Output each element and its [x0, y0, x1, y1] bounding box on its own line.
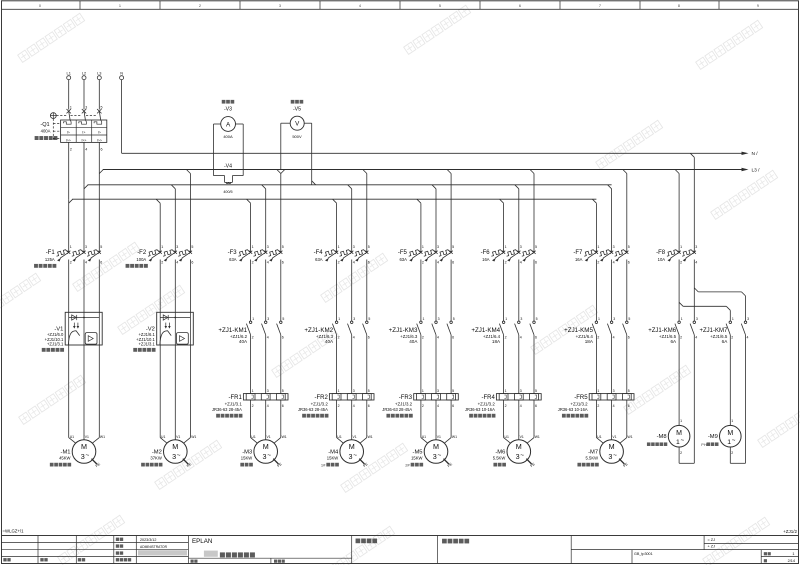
svg-text:18A: 18A — [492, 339, 501, 344]
svg-text:63A: 63A — [399, 257, 407, 262]
svg-text:~: ~ — [681, 438, 685, 444]
svg-text:4: 4 — [437, 261, 439, 265]
svg-text:A: A — [226, 121, 231, 128]
circuit breaker Q1 (400A molded case) — [61, 106, 107, 200]
svg-text:~: ~ — [613, 452, 617, 459]
svg-text:-FR4: -FR4 — [481, 395, 495, 401]
svg-text:2: 2 — [505, 336, 507, 340]
svg-text:3: 3 — [433, 452, 437, 461]
svg-text:+ZJ1/6.4: +ZJ1/6.4 — [483, 334, 501, 339]
label motor name 二级高压泵 — [141, 463, 162, 467]
svg-text:L1: L1 — [67, 70, 71, 75]
svg-text:+ ZJ: + ZJ — [708, 545, 716, 549]
wire M9 feed from contactor — [729, 335, 731, 426]
wire V2 to motor — [159, 345, 161, 438]
svg-text:-F1: -F1 — [46, 250, 56, 256]
svg-text:W1: W1 — [368, 435, 373, 439]
svg-text:6: 6 — [519, 4, 521, 8]
motor M2 (37KW 二级高压泵) — [150, 435, 196, 463]
svg-text:5: 5 — [535, 389, 537, 393]
svg-text:3: 3 — [176, 245, 178, 249]
svg-text:2: 2 — [597, 261, 599, 265]
svg-text:3: 3 — [353, 245, 355, 249]
svg-text:6: 6 — [282, 261, 284, 265]
contactor KM1 (+ZJ1-KM1) — [218, 317, 284, 344]
svg-text:5: 5 — [628, 317, 630, 321]
svg-text:PH: PH — [701, 443, 707, 447]
svg-text:15KW: 15KW — [327, 456, 338, 461]
svg-text:+ZJ1/3.1: +ZJ1/3.1 — [138, 342, 155, 347]
Q1 manual operating mechanism — [50, 113, 56, 119]
svg-text:W1: W1 — [282, 435, 287, 439]
svg-text:4: 4 — [85, 261, 87, 265]
motor M5 (15KW 2#反洗泵) — [411, 435, 457, 463]
svg-text:-F4: -F4 — [314, 250, 324, 256]
bus L2 — [88, 184, 612, 186]
svg-text:6: 6 — [368, 336, 370, 340]
svg-text:6: 6 — [368, 261, 370, 265]
svg-text:1: 1 — [505, 389, 507, 393]
svg-text:~: ~ — [177, 452, 181, 459]
svg-text:2: 2 — [70, 261, 72, 265]
wire KM3 to FR3 — [420, 335, 422, 394]
wire KM1 to FR1 — [250, 335, 252, 394]
contactor KM7 (+ZJ1-KM7) — [699, 317, 749, 344]
svg-text:M: M — [172, 442, 178, 451]
svg-text:1: 1 — [598, 317, 600, 321]
svg-text:N: N — [120, 70, 123, 75]
svg-text:5: 5 — [452, 389, 454, 393]
svg-text:6: 6 — [452, 261, 454, 265]
svg-text:10A: 10A — [658, 257, 666, 262]
svg-text:+ZJ1/3.2: +ZJ1/3.2 — [311, 401, 329, 406]
svg-text:2: 2 — [505, 404, 507, 408]
svg-text:+ZJ1/3.1: +ZJ1/3.1 — [225, 401, 243, 406]
svg-text:-V3: -V3 — [224, 106, 232, 112]
svg-text:3: 3 — [516, 452, 520, 461]
svg-text:+ZJ1/3.2: +ZJ1/3.2 — [570, 401, 588, 406]
motor M6 (5.5KW 提升泵) — [493, 435, 540, 463]
wire F8 to KM6 pole2 — [693, 260, 695, 322]
svg-text:2: 2 — [338, 261, 340, 265]
svg-text:2: 2 — [731, 336, 733, 340]
svg-text:2: 2 — [597, 404, 599, 408]
svg-text:40A: 40A — [239, 339, 248, 344]
svg-text:1: 1 — [252, 245, 254, 249]
svg-text:1: 1 — [422, 389, 424, 393]
thermal overload relay FR5 (JR36-63 10-16A) — [558, 389, 634, 412]
svg-text:+ZJ1-KM4: +ZJ1-KM4 — [471, 327, 500, 334]
svg-text:-M7: -M7 — [588, 449, 598, 455]
svg-text:2: 2 — [680, 336, 682, 340]
label motor name 提升泵 — [493, 463, 506, 467]
circuit breaker F6 (16A) — [481, 245, 537, 265]
svg-text:5: 5 — [368, 245, 370, 249]
svg-text:+ZJ1/6.3: +ZJ1/6.3 — [400, 334, 418, 339]
svg-text:1: 1 — [732, 317, 734, 321]
label 热过载继电器 FR5 — [562, 414, 588, 418]
svg-text:3: 3 — [85, 106, 87, 110]
svg-text:3: 3 — [353, 317, 355, 321]
ammeter V3 — [222, 100, 235, 104]
label motor name 原水泵 — [240, 463, 252, 467]
wire taps feeding branch F3 — [247, 199, 251, 203]
svg-text:-F3: -F3 — [228, 250, 238, 256]
svg-text:I>>: I>> — [97, 138, 102, 142]
svg-text:2: 2 — [422, 404, 424, 408]
svg-text:~: ~ — [438, 452, 442, 459]
svg-text:1: 1 — [119, 4, 121, 8]
svg-text:500V: 500V — [292, 134, 302, 139]
svg-text:M: M — [263, 442, 269, 451]
circuit breaker F3 (63A) — [228, 245, 284, 265]
svg-text:45KW: 45KW — [59, 456, 70, 461]
wire V5 to L2 bus — [304, 122, 312, 124]
svg-text:6: 6 — [452, 404, 454, 408]
svg-text:15KW: 15KW — [241, 456, 252, 461]
wire V5 to L3 bus — [281, 122, 290, 124]
svg-text:400/5: 400/5 — [223, 190, 232, 194]
contactor KM5 (+ZJ1-KM5) — [564, 317, 630, 344]
svg-text:7: 7 — [599, 4, 601, 8]
svg-text:8: 8 — [678, 4, 680, 8]
svg-text:+ZJ1/6.3: +ZJ1/6.3 — [316, 334, 334, 339]
svg-text:1: 1 — [597, 245, 599, 249]
svg-text:+ZJ1/6.4: +ZJ1/6.4 — [576, 334, 594, 339]
svg-text:V1: V1 — [176, 435, 180, 439]
svg-text:4: 4 — [613, 261, 615, 265]
svg-text:U1: U1 — [422, 435, 426, 439]
svg-text:4: 4 — [353, 261, 355, 265]
svg-text:6: 6 — [535, 261, 537, 265]
svg-text:1: 1 — [676, 439, 680, 446]
bus N arrow to N/ — [742, 152, 749, 155]
svg-text:4: 4 — [353, 336, 355, 340]
svg-text:-F2: -F2 — [137, 250, 147, 256]
bus N — [122, 152, 742, 154]
svg-text:-M6: -M6 — [495, 449, 505, 455]
svg-text:-M4: -M4 — [328, 449, 339, 455]
svg-text:+ZJ1-KM5: +ZJ1-KM5 — [564, 327, 593, 334]
svg-text:V1: V1 — [612, 435, 616, 439]
svg-text:GB_tp3001: GB_tp3001 — [634, 552, 653, 556]
svg-text:U1: U1 — [70, 435, 74, 439]
svg-text:1: 1 — [792, 552, 794, 556]
svg-text:4: 4 — [176, 261, 178, 265]
svg-text:V1: V1 — [437, 435, 441, 439]
svg-text:3: 3 — [747, 317, 749, 321]
svg-text:9: 9 — [757, 4, 759, 8]
svg-text:V1: V1 — [267, 435, 271, 439]
svg-text:5: 5 — [535, 245, 537, 249]
wire V1 to motor — [68, 345, 70, 438]
contactor KM3 (+ZJ1-KM3) — [389, 317, 455, 344]
svg-text:W1: W1 — [535, 435, 540, 439]
svg-text:1: 1 — [422, 245, 424, 249]
svg-text:4: 4 — [267, 261, 269, 265]
svg-text:1: 1 — [680, 245, 682, 249]
svg-text:2: 2 — [252, 261, 254, 265]
svg-text:3: 3 — [520, 389, 522, 393]
svg-text:U1: U1 — [597, 435, 601, 439]
svg-text:4: 4 — [85, 148, 87, 152]
label motor name 在线清洗泵 — [577, 463, 598, 467]
svg-text:3: 3 — [279, 4, 281, 8]
svg-text:I>: I> — [67, 131, 70, 135]
svg-text:2: 2 — [161, 261, 163, 265]
wire M8 feed from contactor — [678, 335, 680, 426]
svg-text:-V4: -V4 — [224, 163, 232, 169]
svg-text:I>>: I>> — [66, 138, 71, 142]
svg-text:+ZJ1/6.5: +ZJ1/6.5 — [659, 334, 677, 339]
wire branch F5 breaker to KM3 — [420, 260, 422, 322]
svg-text:-V5: -V5 — [293, 106, 301, 112]
svg-text:0: 0 — [39, 4, 41, 8]
svg-text:4: 4 — [520, 404, 522, 408]
svg-text:3: 3 — [267, 245, 269, 249]
circuit breaker F2 (100A) — [136, 245, 193, 265]
svg-text:-M1: -M1 — [61, 449, 71, 455]
svg-text:3: 3 — [696, 317, 698, 321]
svg-text:2: 2 — [680, 451, 682, 455]
svg-text:3: 3 — [520, 317, 522, 321]
svg-text:5: 5 — [628, 389, 630, 393]
svg-text:2: 2 — [252, 336, 254, 340]
svg-text:4: 4 — [437, 404, 439, 408]
svg-text:4: 4 — [747, 336, 749, 340]
svg-text:2: 2 — [731, 451, 733, 455]
svg-text:1: 1 — [505, 317, 507, 321]
wire FR2 to motor M4 — [336, 400, 338, 438]
svg-text:2/14: 2/14 — [788, 559, 795, 563]
svg-text:-FR3: -FR3 — [399, 395, 413, 401]
svg-text:V1: V1 — [520, 435, 524, 439]
svg-text:5: 5 — [368, 389, 370, 393]
svg-text:6: 6 — [101, 148, 103, 152]
bus L3 — [103, 169, 742, 171]
voltmeter V5 — [291, 100, 304, 104]
label 热过载继电器 FR4 — [469, 414, 495, 418]
svg-text:M: M — [727, 430, 733, 437]
contactor KM2 (+ZJ1-KM2) — [304, 317, 370, 344]
svg-text:63A: 63A — [315, 257, 323, 262]
svg-text:3: 3 — [267, 317, 269, 321]
label 热过载继电器 FR2 — [302, 414, 328, 418]
svg-text:1: 1 — [161, 245, 163, 249]
svg-text:JR36-63 10-16A: JR36-63 10-16A — [465, 407, 495, 412]
wire V1 branch: breaker to inverter — [68, 260, 70, 313]
wire N to N bus — [121, 80, 123, 154]
svg-text:5: 5 — [536, 317, 538, 321]
svg-text:~: ~ — [353, 452, 357, 459]
svg-text:+ZJ1-KM1: +ZJ1-KM1 — [218, 327, 247, 334]
wire L3 to Q1 — [98, 80, 100, 110]
wire taps feeding branch F2 — [156, 199, 160, 203]
svg-text:-F5: -F5 — [398, 250, 408, 256]
svg-text:4: 4 — [695, 336, 697, 340]
svg-text:1: 1 — [423, 317, 425, 321]
PE connection M1 — [92, 459, 97, 464]
svg-text:=WLGZ+/1: =WLGZ+/1 — [3, 529, 25, 534]
svg-text:3: 3 — [85, 245, 87, 249]
svg-text:5: 5 — [282, 389, 284, 393]
label motor name 2#反洗泵 — [405, 462, 423, 467]
svg-text:1: 1 — [338, 245, 340, 249]
label 塑壳断路器 for F1 — [34, 264, 56, 268]
svg-text:1: 1 — [338, 389, 340, 393]
svg-text:EPLAN: EPLAN — [192, 538, 212, 545]
svg-text:2: 2 — [422, 261, 424, 265]
svg-text:L3 /: L3 / — [752, 167, 761, 173]
svg-text:5: 5 — [452, 245, 454, 249]
svg-text:2023/3/12: 2023/3/12 — [140, 538, 156, 542]
wire taps feeding branch F5 — [417, 199, 421, 203]
svg-text:3: 3 — [437, 389, 439, 393]
svg-text:2: 2 — [70, 148, 72, 152]
svg-text:4: 4 — [359, 4, 361, 8]
wire taps feeding branch F6 — [500, 199, 504, 203]
svg-text:W1: W1 — [100, 435, 105, 439]
svg-text:M: M — [516, 442, 522, 451]
svg-text:125A: 125A — [45, 257, 55, 262]
svg-text:V1: V1 — [85, 435, 89, 439]
svg-text:5: 5 — [282, 245, 284, 249]
svg-text:18A: 18A — [585, 339, 594, 344]
svg-text:6: 6 — [628, 404, 630, 408]
wire link F8 to KM7 pole1 (lower) — [679, 302, 683, 306]
svg-text:6: 6 — [628, 261, 630, 265]
svg-text:W1: W1 — [628, 435, 633, 439]
svg-text:U1: U1 — [251, 435, 255, 439]
svg-text:L3: L3 — [97, 70, 101, 75]
wire L1 to Q1 — [68, 80, 70, 110]
svg-text:W1: W1 — [452, 435, 457, 439]
thermal overload relay FR2 (JR36-63 28-45A) — [298, 389, 374, 412]
bus L3 arrow to L3/ — [742, 168, 749, 171]
svg-text:~: ~ — [520, 452, 524, 459]
svg-text:2: 2 — [422, 336, 424, 340]
svg-text:4: 4 — [613, 404, 615, 408]
wire KM4 to FR4 — [503, 335, 505, 394]
wire FR3 to motor M5 — [420, 400, 422, 438]
svg-text:3: 3 — [520, 245, 522, 249]
svg-text:1: 1 — [70, 106, 72, 110]
wire KM2 to FR2 — [336, 335, 338, 394]
svg-text:2: 2 — [505, 261, 507, 265]
svg-text:2: 2 — [338, 404, 340, 408]
svg-text:3: 3 — [81, 452, 85, 461]
svg-text:63A: 63A — [229, 257, 237, 262]
svg-text:+ZJ1/3.2: +ZJ1/3.2 — [478, 401, 496, 406]
svg-text:16A: 16A — [482, 257, 490, 262]
circuit breaker F4 (63A) — [314, 245, 370, 265]
svg-text:3: 3 — [608, 452, 612, 461]
motor M4 (15KW 1#反洗泵) — [327, 435, 373, 463]
wire link F8 to KM7 pole2 (upper) — [698, 291, 741, 293]
svg-text:400A: 400A — [41, 129, 51, 134]
svg-text:5: 5 — [439, 4, 441, 8]
svg-text:+ZJ1/3.1: +ZJ1/3.1 — [47, 342, 64, 347]
svg-text:6A: 6A — [722, 339, 729, 344]
label motor name 一级高压泵 — [50, 463, 71, 467]
svg-text:4: 4 — [267, 336, 269, 340]
motor M9 (PH加药泵) — [708, 425, 741, 447]
svg-text:2: 2 — [199, 4, 201, 8]
svg-text:W1: W1 — [191, 435, 196, 439]
label 塑壳断路器 for F2 — [126, 264, 148, 268]
svg-text:5: 5 — [453, 317, 455, 321]
wire taps feeding branch F7 (bus ends) — [592, 199, 596, 203]
svg-text:JR36-63 28-45A: JR36-63 28-45A — [298, 407, 328, 412]
wire V2 branch: breaker to inverter — [159, 260, 161, 313]
svg-text:3: 3 — [437, 245, 439, 249]
svg-text:3: 3 — [438, 317, 440, 321]
svg-text:-M5: -M5 — [413, 449, 423, 455]
label motor name PH加药泵 — [701, 442, 718, 446]
svg-text:-FR5: -FR5 — [574, 395, 588, 401]
label 热过载继电器 FR3 — [386, 414, 412, 418]
svg-text:4: 4 — [520, 261, 522, 265]
svg-text:1: 1 — [252, 389, 254, 393]
svg-text:1: 1 — [680, 419, 682, 423]
svg-text:6: 6 — [191, 261, 193, 265]
PE connection M3 — [273, 459, 278, 464]
svg-text:+ZJ1/3.2: +ZJ1/3.2 — [395, 401, 413, 406]
svg-text:-M2: -M2 — [152, 449, 162, 455]
frequency inverter V1 (富士变频器) — [65, 312, 102, 345]
svg-text:3: 3 — [172, 452, 176, 461]
svg-text:5: 5 — [628, 245, 630, 249]
bus L1 — [72, 198, 596, 200]
contactor KM6 (+ZJ1-KM6) — [648, 317, 698, 344]
svg-text:16A: 16A — [575, 257, 583, 262]
svg-text:6A: 6A — [670, 339, 677, 344]
svg-text:3: 3 — [613, 389, 615, 393]
svg-text:4: 4 — [267, 404, 269, 408]
svg-text:-M8: -M8 — [657, 434, 667, 440]
svg-text:5: 5 — [100, 245, 102, 249]
wire L2 to Q1 — [83, 80, 85, 110]
wire branch F7 breaker to KM5 — [595, 260, 597, 322]
svg-text:2: 2 — [597, 336, 599, 340]
svg-text:4: 4 — [613, 336, 615, 340]
svg-text:-M9: -M9 — [708, 434, 718, 440]
svg-text:1: 1 — [252, 317, 254, 321]
thermal overload relay FR3 (JR36-63 28-45A) — [382, 389, 458, 412]
svg-text:2: 2 — [252, 404, 254, 408]
svg-text:2: 2 — [338, 336, 340, 340]
wire taps feeding branch F8 — [675, 170, 679, 174]
svg-text:M: M — [349, 442, 355, 451]
svg-text:6: 6 — [282, 336, 284, 340]
wire branch F3 breaker to KM1 — [250, 260, 252, 322]
svg-text:5: 5 — [368, 317, 370, 321]
svg-text:4: 4 — [520, 336, 522, 340]
motor M1 (45KW 一级高压泵) — [59, 435, 105, 463]
svg-text:2#: 2# — [405, 462, 410, 467]
svg-text:~: ~ — [267, 452, 271, 459]
wire FR4 to motor M6 — [503, 400, 505, 438]
svg-text:400A: 400A — [223, 134, 233, 139]
motor M7 (5.5KW 在线清洗泵) — [586, 435, 633, 463]
title block — [2, 536, 799, 564]
svg-text:L2: L2 — [82, 70, 86, 75]
svg-text:-F8: -F8 — [656, 250, 666, 256]
svg-text:1: 1 — [338, 317, 340, 321]
circuit breaker F1 (125A) — [45, 245, 102, 265]
svg-text:6: 6 — [452, 336, 454, 340]
svg-text:= ZJ: = ZJ — [708, 538, 716, 542]
